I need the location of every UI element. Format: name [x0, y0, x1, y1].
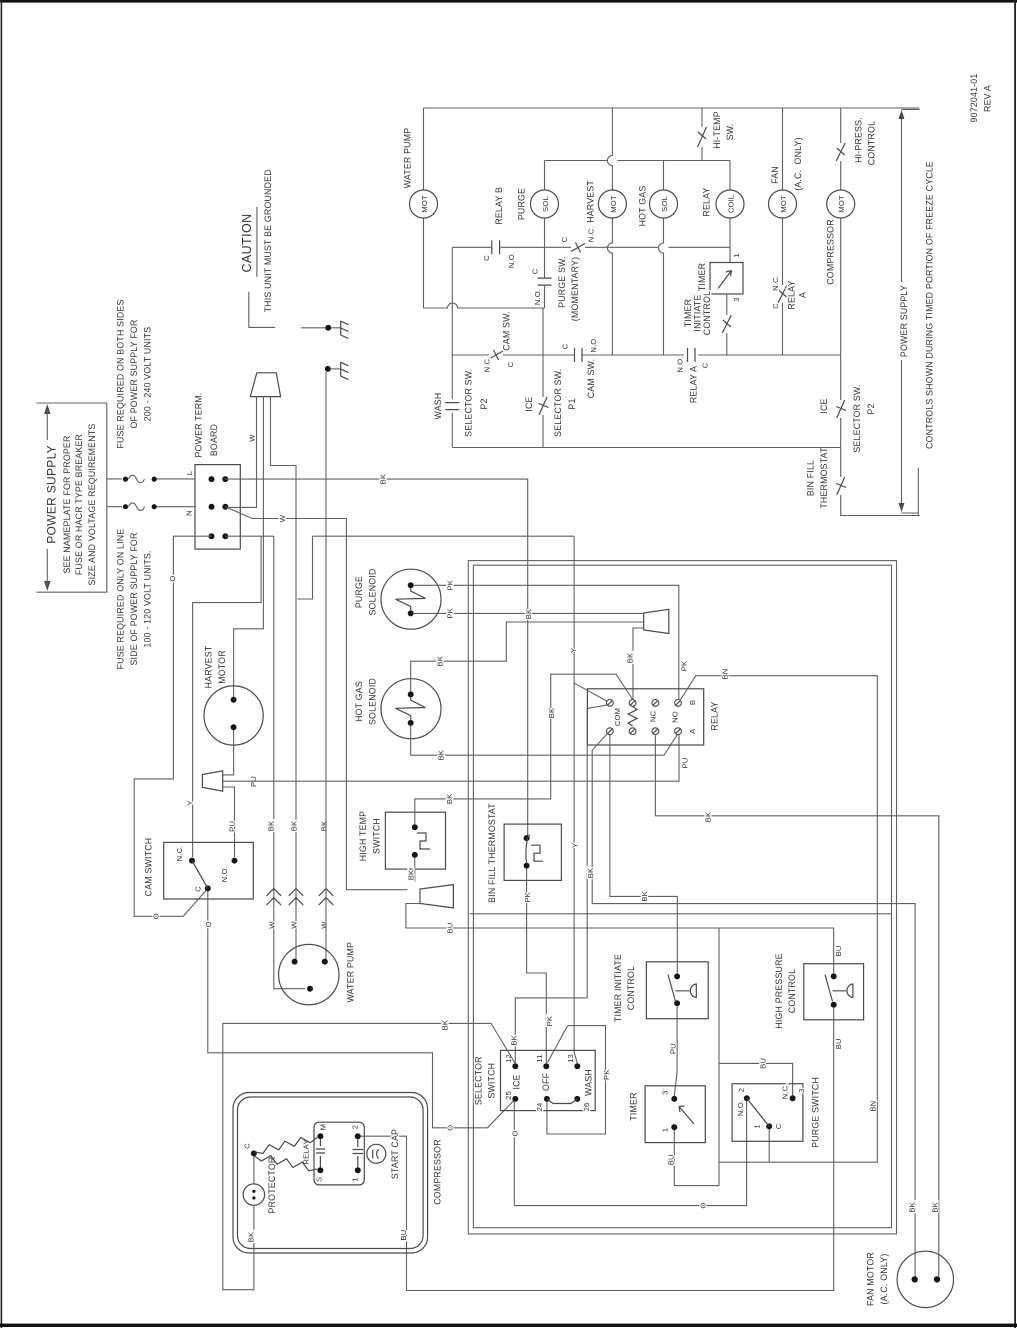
svg-text:PURGE: PURGE	[517, 188, 527, 220]
hot gas solenoid	[354, 678, 441, 739]
splice chevrons wire 2	[289, 820, 303, 929]
svg-text:(MOMENTARY): (MOMENTARY)	[570, 257, 580, 321]
svg-text:26: 26	[582, 1103, 591, 1112]
relay pin NC B	[652, 700, 659, 707]
svg-text:COMPRESSOR: COMPRESSOR	[433, 1139, 443, 1205]
timer box	[628, 1086, 705, 1143]
harvest motor	[204, 645, 264, 745]
svg-text:1: 1	[732, 253, 741, 257]
svg-text:MOT: MOT	[609, 195, 618, 213]
contact relay A N.O.	[675, 348, 709, 403]
svg-text:BK: BK	[319, 820, 328, 831]
svg-text:BU: BU	[666, 1154, 675, 1165]
switch timer initiate control	[683, 291, 731, 355]
wire left branch vertical with WASH contact	[451, 247, 453, 447]
svg-text:C: C	[700, 362, 709, 368]
wire harvest rung vertical with hops	[607, 108, 612, 355]
contact cam sw N.O.	[560, 336, 598, 398]
wire fan rung	[782, 108, 784, 355]
connector BK/PK relay	[644, 609, 669, 633]
svg-text:N.O.: N.O.	[675, 356, 684, 372]
contact cam N.C.	[560, 227, 596, 253]
svg-text:O: O	[445, 1125, 454, 1131]
svg-text:25: 25	[504, 1091, 513, 1100]
svg-text:2: 2	[350, 1125, 359, 1129]
svg-text:BU: BU	[445, 923, 454, 934]
svg-text:O: O	[151, 913, 160, 919]
relay pin COM B	[607, 700, 614, 707]
svg-text:Y: Y	[186, 800, 195, 805]
caution note	[240, 169, 275, 327]
wire O selector 25 to purge switch NO2	[514, 1101, 746, 1206]
wire top supply bus	[424, 107, 920, 109]
svg-text:PK: PK	[523, 891, 532, 902]
svg-text:NC: NC	[648, 711, 657, 723]
svg-text:POWER SUPPLY: POWER SUPPLY	[45, 445, 59, 544]
dimension power supply left	[37, 403, 107, 592]
svg-text:BK: BK	[509, 1034, 518, 1045]
svg-text:CAM SW.: CAM SW.	[501, 311, 511, 351]
water pump	[279, 942, 356, 1005]
svg-text:SELECTOR SW.: SELECTOR SW.	[463, 369, 473, 437]
note see nameplate	[62, 424, 97, 586]
fuse F2 line N	[107, 503, 195, 516]
svg-text:THERMOSTAT: THERMOSTAT	[819, 447, 829, 509]
svg-text:BU: BU	[399, 1230, 408, 1241]
svg-text:BOARD: BOARD	[209, 424, 219, 456]
svg-text:SWITCH: SWITCH	[371, 818, 381, 854]
doc number 9072041-01 REV A	[969, 74, 993, 123]
svg-text:N.O.: N.O.	[533, 289, 542, 305]
selector switch box	[474, 1050, 596, 1111]
svg-text:12: 12	[504, 1054, 513, 1063]
svg-text:BU: BU	[834, 1038, 843, 1049]
svg-text:SIDE OF POWER SUPPLY FOR: SIDE OF POWER SUPPLY FOR	[129, 532, 139, 665]
wire BK relay NC A to fan right	[655, 735, 938, 1277]
bin fill thermostat	[487, 803, 561, 903]
svg-text:P1: P1	[567, 398, 577, 409]
svg-text:SW.: SW.	[725, 124, 735, 141]
svg-text:A: A	[688, 728, 697, 734]
svg-text:BK: BK	[640, 890, 649, 901]
svg-text:NO: NO	[670, 711, 679, 723]
svg-text:CONTROL: CONTROL	[866, 121, 876, 165]
svg-text:BK: BK	[625, 652, 634, 663]
svg-text:HOT GAS: HOT GAS	[354, 681, 364, 722]
wire hot-gas rung horizontal	[545, 160, 731, 162]
wire PK bin fill to selector 11	[527, 869, 547, 1063]
svg-text:BK: BK	[246, 1231, 255, 1242]
relay pin coil B	[629, 700, 636, 707]
svg-text:CONTROLS SHOWN DURING TIMED PO: CONTROLS SHOWN DURING TIMED PORTION OF F…	[925, 161, 935, 449]
svg-text:W: W	[278, 514, 287, 522]
timer initiate control box	[613, 954, 708, 1022]
svg-text:C: C	[482, 255, 491, 261]
svg-text:BK: BK	[436, 749, 445, 760]
svg-text:24: 24	[535, 1102, 544, 1111]
svg-text:3: 3	[797, 1088, 806, 1092]
svg-text:BK: BK	[586, 867, 595, 878]
switch bin fill thermostat	[805, 447, 846, 509]
wire plug prong middle to harvest	[234, 397, 264, 700]
svg-text:PU: PU	[227, 821, 236, 832]
control box inner	[473, 565, 891, 1227]
svg-text:WATER PUMP: WATER PUMP	[403, 128, 413, 189]
svg-text:PK: PK	[446, 579, 455, 590]
wire inner cross line	[470, 913, 892, 915]
wire BK hts bottom to plug	[414, 858, 416, 882]
wire PK selector loop	[547, 1026, 606, 1134]
wire BK relay COM A to fan left	[592, 733, 915, 1276]
motor fan MOT	[769, 190, 797, 218]
compressor shell inner	[238, 1097, 424, 1249]
svg-text:INITIATE: INITIATE	[692, 294, 702, 331]
svg-text:BK: BK	[445, 793, 454, 804]
wire connector to cam N.O.	[223, 787, 235, 857]
svg-text:RELAY: RELAY	[710, 701, 720, 730]
svg-text:OFF: OFF	[541, 1072, 551, 1091]
svg-text:FAN: FAN	[770, 166, 780, 184]
svg-text:TIMER: TIMER	[697, 263, 707, 291]
svg-text:W: W	[319, 921, 328, 929]
ground symbol 1	[301, 321, 349, 339]
contact relay A N.C.	[771, 275, 807, 309]
svg-text:C: C	[774, 1123, 783, 1129]
connector harvest PU	[202, 771, 222, 791]
svg-text:W: W	[289, 921, 298, 929]
svg-text:B: B	[688, 700, 697, 705]
svg-text:BK: BK	[704, 811, 713, 822]
svg-text:3: 3	[732, 297, 741, 301]
relay box	[587, 689, 719, 745]
svg-text:A: A	[797, 292, 807, 298]
note fuse required both sides	[116, 299, 153, 448]
svg-text:13: 13	[566, 1054, 575, 1063]
svg-text:Y: Y	[569, 648, 578, 653]
svg-text:O: O	[511, 1130, 520, 1136]
svg-text:M: M	[319, 1124, 328, 1131]
svg-text:CONTROL: CONTROL	[626, 966, 636, 1010]
svg-text:HI-PRESS.: HI-PRESS.	[853, 117, 863, 163]
svg-text:WASH: WASH	[583, 1069, 593, 1096]
wire BK connector to relay coil	[633, 628, 644, 699]
svg-text:HIGH TEMP: HIGH TEMP	[358, 811, 368, 862]
relay pin NO A	[675, 728, 682, 735]
svg-text:Y: Y	[570, 843, 579, 848]
wire harvest bottom to connector	[223, 730, 234, 775]
note fuse required line side	[116, 529, 153, 670]
wire BN relay NO B to purge switch C	[680, 676, 877, 1162]
svg-text:BIN FILL THERMOSTAT: BIN FILL THERMOSTAT	[487, 803, 497, 903]
wire Y run from board row3	[225, 536, 574, 599]
dimension power supply right	[899, 109, 920, 513]
start cap	[367, 1129, 400, 1179]
start relay compressor	[301, 1122, 364, 1185]
relay pin coil A	[629, 728, 636, 735]
svg-text:SOLENOID: SOLENOID	[367, 678, 377, 725]
wire BK hot gas top to connector	[411, 622, 644, 691]
svg-text:BK: BK	[289, 820, 298, 831]
svg-text:RELAY: RELAY	[701, 187, 711, 216]
switch hi-temp	[698, 108, 736, 161]
node C compressor	[242, 1143, 256, 1184]
svg-text:W: W	[247, 434, 256, 442]
protector	[243, 1157, 277, 1214]
svg-text:N: N	[184, 510, 193, 516]
svg-text:RELAY: RELAY	[301, 1139, 310, 1164]
svg-text:ICE: ICE	[511, 1074, 521, 1089]
svg-text:L: L	[185, 470, 194, 475]
svg-text:S: S	[315, 1177, 324, 1182]
svg-text:PURGE SWITCH: PURGE SWITCH	[811, 1077, 821, 1148]
svg-text:CAM SW.: CAM SW.	[586, 359, 596, 399]
relay pin NO B	[675, 700, 682, 707]
svg-text:RELAY A: RELAY A	[688, 366, 698, 403]
power cord plug	[250, 373, 280, 397]
svg-text:(A.C. ONLY): (A.C. ONLY)	[879, 1254, 889, 1305]
svg-text:BK: BK	[436, 655, 445, 666]
wire BK protector loop	[223, 1023, 254, 1289]
svg-text:W: W	[267, 921, 276, 929]
svg-text:THIS UNIT MUST BE GROUNDED: THIS UNIT MUST BE GROUNDED	[263, 169, 273, 312]
svg-text:SELECTOR SW.: SELECTOR SW.	[553, 369, 563, 437]
svg-text:BK: BK	[930, 1201, 939, 1212]
svg-text:P2: P2	[479, 398, 489, 409]
svg-text:START CAP: START CAP	[390, 1129, 400, 1179]
wire BU from plug to high pressure control	[406, 904, 834, 974]
svg-text:POWER TERM.: POWER TERM.	[193, 392, 203, 457]
svg-text:REV A: REV A	[983, 85, 993, 112]
wire plug prong W to N	[229, 397, 257, 508]
cam switch box	[144, 838, 254, 899]
svg-text:3: 3	[660, 1091, 669, 1095]
svg-text:ICE: ICE	[524, 396, 534, 411]
wire cam sw rung	[452, 354, 840, 356]
wire water pump rung vertical	[424, 108, 545, 308]
svg-text:O: O	[168, 576, 177, 582]
relay pin COM A	[607, 728, 614, 735]
svg-text:CONTROL: CONTROL	[702, 291, 712, 335]
motor harvest MOT	[598, 190, 626, 218]
solenoid purge SOL	[531, 190, 559, 218]
ground symbol 2	[325, 362, 349, 380]
svg-text:PROTECTOR: PROTECTOR	[267, 1157, 277, 1214]
svg-text:CAM SWITCH: CAM SWITCH	[144, 838, 154, 897]
splice chevrons wire 3	[319, 820, 333, 929]
svg-text:RELAY B: RELAY B	[494, 187, 504, 225]
svg-text:C: C	[771, 303, 780, 309]
svg-text:N.O.: N.O.	[589, 336, 598, 352]
svg-text:PK: PK	[602, 1069, 611, 1080]
wire purge sol branch vertical	[544, 161, 546, 309]
svg-text:SOL: SOL	[660, 196, 669, 212]
power terminal board	[193, 392, 240, 549]
svg-text:BK: BK	[547, 707, 556, 718]
svg-text:O: O	[698, 1203, 707, 1209]
wire bottom rail	[452, 447, 840, 449]
svg-text:CAUTION: CAUTION	[240, 213, 254, 272]
high temp switch	[358, 811, 446, 869]
svg-text:11: 11	[535, 1054, 544, 1062]
wire ground to water pump	[325, 372, 327, 959]
svg-text:(A.C. ONLY): (A.C. ONLY)	[793, 137, 803, 191]
contact relay B N.O.	[482, 240, 516, 268]
svg-text:ICE: ICE	[819, 398, 829, 413]
wire relay B rung	[452, 246, 544, 248]
svg-text:BIN FILL: BIN FILL	[805, 460, 815, 496]
wire BK relay COM B to selector 12	[515, 705, 607, 1063]
svg-text:PU: PU	[680, 758, 689, 769]
bracket nameplate note	[106, 403, 108, 592]
svg-text:BK: BK	[441, 1019, 450, 1030]
fan motor	[865, 1251, 953, 1307]
relay pin NC A	[652, 728, 659, 735]
svg-text:9072041-01: 9072041-01	[969, 74, 979, 123]
svg-text:C: C	[193, 886, 202, 892]
wire BU rail horizontal	[718, 928, 720, 1186]
svg-text:FUSE OR HACR TYPE BREAKER: FUSE OR HACR TYPE BREAKER	[74, 434, 84, 575]
svg-text:100 - 120 VOLT UNITS.: 100 - 120 VOLT UNITS.	[143, 550, 153, 647]
svg-text:HI-TEMP: HI-TEMP	[712, 111, 722, 149]
control box outer	[468, 561, 896, 1234]
contact selector sw P2 WASH	[433, 369, 489, 437]
wire BU hpc bottom long run	[361, 1008, 834, 1291]
svg-text:RELAY: RELAY	[786, 280, 796, 309]
svg-text:C: C	[560, 236, 569, 242]
svg-text:MOT: MOT	[837, 195, 846, 213]
svg-text:POWER SUPPLY: POWER SUPPLY	[899, 285, 909, 357]
svg-text:FAN MOTOR: FAN MOTOR	[865, 1252, 875, 1306]
svg-text:HARVEST: HARVEST	[204, 645, 214, 688]
svg-text:BK: BK	[907, 1201, 916, 1212]
wire Y branch to cam N.C.	[193, 536, 262, 857]
svg-text:C: C	[560, 343, 569, 349]
svg-text:PU: PU	[668, 1043, 677, 1054]
svg-text:PK: PK	[545, 1015, 554, 1026]
svg-text:MOT: MOT	[779, 195, 788, 213]
svg-text:WASH: WASH	[433, 393, 443, 420]
splice chevrons wire 1	[266, 820, 281, 929]
svg-text:N.C.: N.C.	[175, 846, 184, 862]
svg-text:SIZE AND VOLTAGE REQUIREMENTS: SIZE AND VOLTAGE REQUIREMENTS	[87, 424, 97, 586]
svg-text:SOLENOID: SOLENOID	[367, 568, 377, 615]
contact cam sw N.C. left	[482, 311, 515, 372]
svg-text:O: O	[204, 921, 213, 927]
wire Y board to relay COM B and selector 13	[574, 536, 607, 1063]
svg-text:SOL: SOL	[541, 196, 550, 212]
wire PK purge bottom to connector	[414, 612, 644, 614]
wire BK bus from L terminal	[225, 479, 527, 838]
svg-text:C: C	[242, 1143, 251, 1149]
svg-text:N.O.: N.O.	[220, 866, 229, 882]
fuse F1 line L	[107, 470, 195, 482]
svg-text:PURGE: PURGE	[354, 576, 364, 608]
svg-text:COM: COM	[613, 708, 622, 726]
svg-text:SWITCH: SWITCH	[487, 1063, 497, 1099]
timer U1 box	[697, 253, 743, 301]
svg-text:SEE NAMEPLATE FOR PROPER: SEE NAMEPLATE FOR PROPER	[62, 435, 72, 573]
svg-text:WATER PUMP: WATER PUMP	[345, 942, 355, 1003]
wire O from board to cam C	[134, 536, 211, 916]
wire compressor rung	[841, 108, 920, 516]
svg-text:N.O.: N.O.	[507, 252, 516, 268]
svg-text:SELECTOR SW.: SELECTOR SW.	[852, 384, 862, 452]
svg-text:1: 1	[752, 1124, 761, 1128]
wire BK chevron run 1	[274, 536, 305, 989]
svg-text:N.C.: N.C.	[587, 227, 596, 243]
wire N to W run	[225, 507, 407, 890]
svg-text:P2: P2	[866, 403, 876, 414]
switch selector P2 ICE right	[819, 384, 876, 452]
relay coil branch	[729, 161, 731, 263]
svg-text:TIMER INITIATE: TIMER INITIATE	[613, 954, 623, 1022]
zigzag relay coil to S	[254, 1156, 317, 1171]
wire PU tic to timer 3	[674, 1006, 677, 1096]
high pressure control box	[774, 953, 864, 1028]
svg-text:N.C.: N.C.	[780, 1084, 789, 1100]
svg-text:N.C.: N.C.	[482, 357, 491, 373]
svg-text:BU: BU	[834, 945, 843, 956]
wire BK to selector 12	[223, 1023, 516, 1063]
svg-text:BN: BN	[721, 669, 730, 680]
contact purge switch momentary N.O.	[530, 256, 580, 321]
purge solenoid	[354, 568, 441, 629]
svg-text:TIMER: TIMER	[683, 299, 693, 327]
wire plug prong right to water pump	[271, 397, 297, 959]
wire BK hot gas bottom to relay NO A	[411, 726, 678, 755]
motor water pump MOT	[410, 190, 438, 218]
wire N.C. cam rung	[545, 246, 731, 248]
svg-text:TIMER: TIMER	[628, 1092, 638, 1120]
svg-text:C: C	[530, 268, 539, 274]
svg-text:PK: PK	[446, 607, 455, 618]
svg-text:PK: PK	[679, 660, 688, 671]
svg-text:MOTOR: MOTOR	[217, 650, 227, 684]
svg-text:COIL: COIL	[726, 194, 735, 213]
solenoid hot gas SOL	[650, 190, 678, 218]
svg-text:FUSE REQUIRED ON BOTH SIDES: FUSE REQUIRED ON BOTH SIDES	[116, 299, 126, 448]
svg-text:FUSE REQUIRED ONLY ON LINE: FUSE REQUIRED ONLY ON LINE	[116, 529, 126, 670]
svg-text:200 - 240 VOLT UNITS: 200 - 240 VOLT UNITS	[143, 327, 153, 422]
zigzag relay coil to M	[254, 1137, 317, 1153]
svg-text:BK: BK	[266, 820, 275, 831]
svg-text:COMPRESSOR: COMPRESSOR	[825, 219, 835, 285]
compressor shell outer	[233, 1093, 428, 1254]
switch selector P1 ICE	[524, 308, 577, 448]
purge switch box	[732, 1077, 821, 1148]
motor compressor MOT	[827, 190, 855, 218]
svg-text:1: 1	[350, 1177, 359, 1181]
svg-text:HIGH PRESSURE: HIGH PRESSURE	[774, 953, 784, 1028]
wire BU timer 1 to purge switch NC	[674, 1063, 792, 1185]
svg-text:BK: BK	[378, 473, 387, 484]
connector high temp plug	[420, 885, 453, 908]
coil relay COIL	[716, 190, 744, 218]
svg-text:BK: BK	[524, 608, 533, 619]
svg-text:HOT GAS: HOT GAS	[637, 186, 647, 227]
wire PU relay NO A	[678, 735, 680, 782]
wire PK purge top to relay NO B	[414, 585, 679, 699]
svg-text:BU: BU	[759, 1058, 768, 1069]
svg-text:PURGE SW.: PURGE SW.	[557, 256, 567, 308]
wire PU long run	[223, 780, 679, 782]
svg-text:SELECTOR: SELECTOR	[474, 1056, 484, 1105]
wire BK high temp to relay COM B	[415, 674, 633, 824]
wire BK relay COM A to timer initiate	[610, 735, 677, 973]
svg-text:BN: BN	[868, 1101, 877, 1112]
switch hi-press control	[836, 117, 876, 165]
wire O from cam C down	[208, 891, 516, 1127]
